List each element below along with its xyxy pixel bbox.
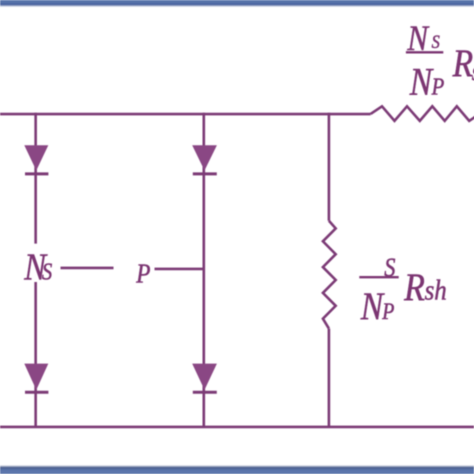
- svg-text:sh: sh: [425, 274, 447, 306]
- svg-text:S: S: [42, 258, 52, 285]
- wire branch 1 upper segment: [34, 113, 37, 244]
- wire branch 1 lower segment: [34, 282, 37, 427]
- fraction bar (top right): [406, 51, 443, 53]
- svg-text:S: S: [432, 31, 440, 52]
- top border bar: [0, 0, 474, 8]
- fraction bar (Rsh label): [359, 276, 398, 278]
- wire ellipsis dash between N_S and P: [61, 267, 114, 270]
- diode D3 cathode bar: [193, 172, 217, 175]
- svg-text:N: N: [360, 285, 385, 328]
- resistor Rsh (shunt, vertical zigzag): [323, 221, 336, 329]
- diode D4 (branch 2 lower): [192, 364, 217, 390]
- svg-text:P: P: [431, 73, 445, 100]
- diode D3 (branch 2 upper): [192, 145, 217, 170]
- wire branch 3 lower segment: [328, 329, 331, 427]
- diode D1 cathode bar: [25, 172, 48, 175]
- resistor Rs (series, horizontal zigzag, clipped at right edge): [371, 106, 474, 121]
- diode D2 cathode bar: [25, 391, 48, 394]
- diode D1 (branch 1 upper): [24, 145, 48, 170]
- svg-text:R: R: [452, 42, 473, 85]
- diode D2 (branch 1 lower): [24, 364, 48, 390]
- svg-text:P: P: [381, 299, 394, 325]
- wire branch 2: [203, 113, 206, 427]
- wire branch 3 upper segment: [328, 113, 331, 221]
- svg-text:R: R: [403, 264, 425, 308]
- bottom border bar: [0, 465, 474, 474]
- wire bottom bus: [0, 426, 474, 429]
- svg-text:P: P: [135, 260, 150, 289]
- wire top bus: [0, 113, 371, 116]
- wire from P to branch 2: [155, 268, 204, 271]
- svg-text:N: N: [409, 60, 434, 103]
- diode D4 cathode bar: [193, 391, 217, 394]
